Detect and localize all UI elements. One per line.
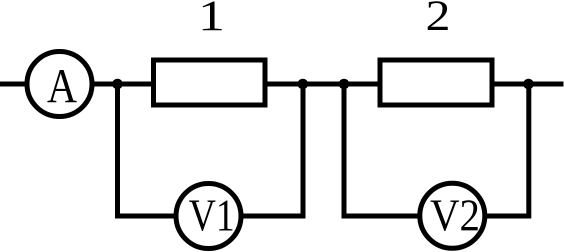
node C junction dot — [298, 79, 309, 90]
voltmeter V1 (circle) — [176, 184, 241, 249]
resistor 2 (box) — [380, 60, 492, 105]
resistor 1 (box) — [154, 60, 266, 105]
wire: V1 loop (down from node B, across bottom, up to node C) — [118, 84, 304, 216]
svg-text:A: A — [47, 58, 78, 113]
voltmeter V2 (circle) — [420, 183, 485, 248]
wire: V2 loop (down from node D, across bottom, up to node E) — [344, 84, 529, 216]
svg-text:V1: V1 — [189, 191, 235, 241]
svg-text:V2: V2 — [430, 191, 480, 241]
wire: main horizontal rail — [0, 82, 564, 87]
node B junction dot — [112, 79, 123, 90]
node E junction dot — [523, 79, 534, 90]
ammeter A (circle) — [27, 52, 92, 117]
node D junction dot — [339, 79, 350, 90]
svg-text:1: 1 — [198, 0, 225, 40]
svg-text:2: 2 — [426, 0, 451, 40]
